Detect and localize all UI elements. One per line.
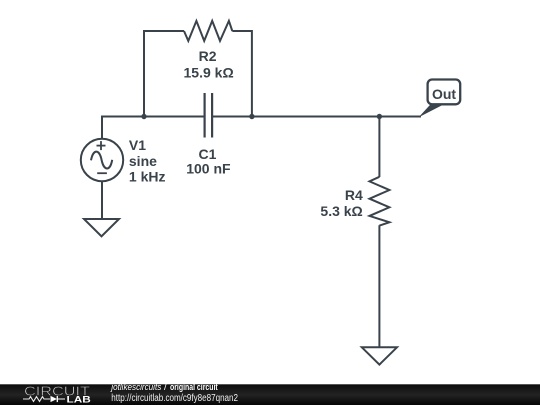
wire V1 to ground — [101, 181, 103, 219]
CircuitLab logo — [23, 383, 91, 405]
svg-text:sine: sine — [129, 153, 157, 169]
voltage source V1 — [81, 139, 123, 181]
svg-text:LAB: LAB — [67, 395, 91, 405]
svg-text:original circuit: original circuit — [170, 382, 218, 393]
footer credit text — [110, 382, 219, 393]
svg-text:15.9 kΩ: 15.9 kΩ — [184, 65, 234, 81]
svg-text:V1: V1 — [129, 137, 146, 153]
node C junction dot — [377, 114, 382, 119]
wire node C to R4 — [378, 117, 380, 178]
ground GND1 — [84, 219, 119, 236]
wire C1 to node B — [212, 116, 252, 118]
node A junction dot — [141, 114, 146, 119]
node B junction dot — [249, 114, 254, 119]
footer bar — [0, 384, 540, 405]
capacitor C1 — [205, 93, 213, 138]
wire R2 top right — [232, 30, 252, 32]
wire R4 to ground — [378, 225, 380, 347]
wire node B to node C — [252, 116, 380, 118]
svg-text:R2: R2 — [199, 48, 217, 64]
wire node C to Out flag — [379, 116, 421, 118]
svg-text:R4: R4 — [345, 187, 363, 203]
ground GND2 — [362, 347, 397, 364]
wire V1 top to node A — [102, 117, 144, 139]
wire R2 top left — [143, 30, 184, 32]
svg-text:jotlikescircuits: jotlikescircuits — [110, 382, 162, 393]
svg-text:1 kHz: 1 kHz — [129, 169, 166, 185]
svg-text:http://circuitlab.com/c9fy8e87: http://circuitlab.com/c9fy8e87qnan2 — [111, 393, 238, 404]
wire R2 left leg — [143, 31, 145, 117]
wire node A to C1 — [144, 116, 205, 118]
wire R2 right leg — [251, 30, 253, 117]
svg-text:Out: Out — [432, 86, 456, 102]
resistor R2 — [184, 21, 232, 41]
svg-text:/: / — [164, 382, 167, 393]
flag Out — [419, 80, 461, 118]
svg-text:100 nF: 100 nF — [186, 161, 231, 177]
resistor R4 — [370, 177, 390, 226]
svg-text:5.3 kΩ: 5.3 kΩ — [320, 203, 362, 219]
